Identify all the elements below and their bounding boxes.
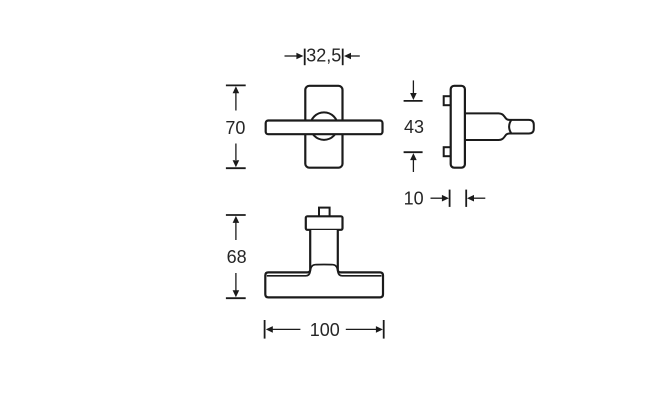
top view bar outline with neck	[265, 230, 383, 297]
side view plate profile	[451, 86, 465, 168]
dimension 68 top tick	[226, 214, 246, 216]
dimension 43 bottom arrow	[410, 153, 417, 172]
dimension 32,5 right tick	[342, 49, 344, 66]
front view plate (rounded rosette)	[305, 86, 342, 168]
svg-text:70: 70	[225, 118, 245, 138]
svg-text:10: 10	[404, 189, 424, 209]
top view rounding edge line with neck flare	[267, 264, 382, 275]
front view handle bar	[266, 121, 383, 135]
side view bottom fixing pin	[444, 147, 454, 156]
dimension 10 right tick	[465, 190, 467, 207]
side view top fixing pin	[444, 96, 454, 105]
dimension 10 left-pointing arrow	[467, 195, 485, 202]
dimension 70 top tick	[226, 84, 246, 86]
svg-text:68: 68	[227, 247, 247, 267]
svg-text:100: 100	[310, 320, 340, 340]
dimension 43 bottom tick	[404, 151, 423, 153]
dimension 100 right tick	[383, 320, 385, 339]
dimension 100 right-pointing arrow	[346, 326, 383, 333]
dimension 68 top arrow	[233, 216, 240, 240]
side view handle neck, ogee transition and grip end	[460, 113, 534, 140]
dimension 10 left tick	[449, 190, 451, 207]
front view hub circle	[310, 112, 338, 140]
dimension 43 top tick	[404, 100, 423, 102]
dimension 100 left tick	[264, 320, 266, 339]
svg-text:43: 43	[404, 117, 424, 137]
dimension 43 top arrow	[410, 80, 417, 100]
top view spindle square	[319, 208, 330, 218]
dimension 70 top arrow	[233, 86, 240, 110]
dimension 68 bottom arrow	[233, 273, 240, 297]
top view plate cap	[306, 216, 343, 230]
dimension 70 bottom arrow	[233, 144, 240, 168]
dimension 10 right-pointing arrow	[431, 195, 449, 202]
dimension 68 bottom tick	[226, 297, 246, 299]
dimension 100 left-pointing arrow	[266, 326, 301, 333]
dimension 32,5 right arrow	[344, 53, 360, 60]
dimension 70 bottom tick	[226, 167, 246, 169]
dimension 32,5 left tick	[304, 49, 306, 66]
side view grip dome edge arc	[509, 120, 512, 134]
dimension 32,5 left arrow	[285, 53, 304, 60]
svg-text:32,5: 32,5	[306, 46, 341, 66]
